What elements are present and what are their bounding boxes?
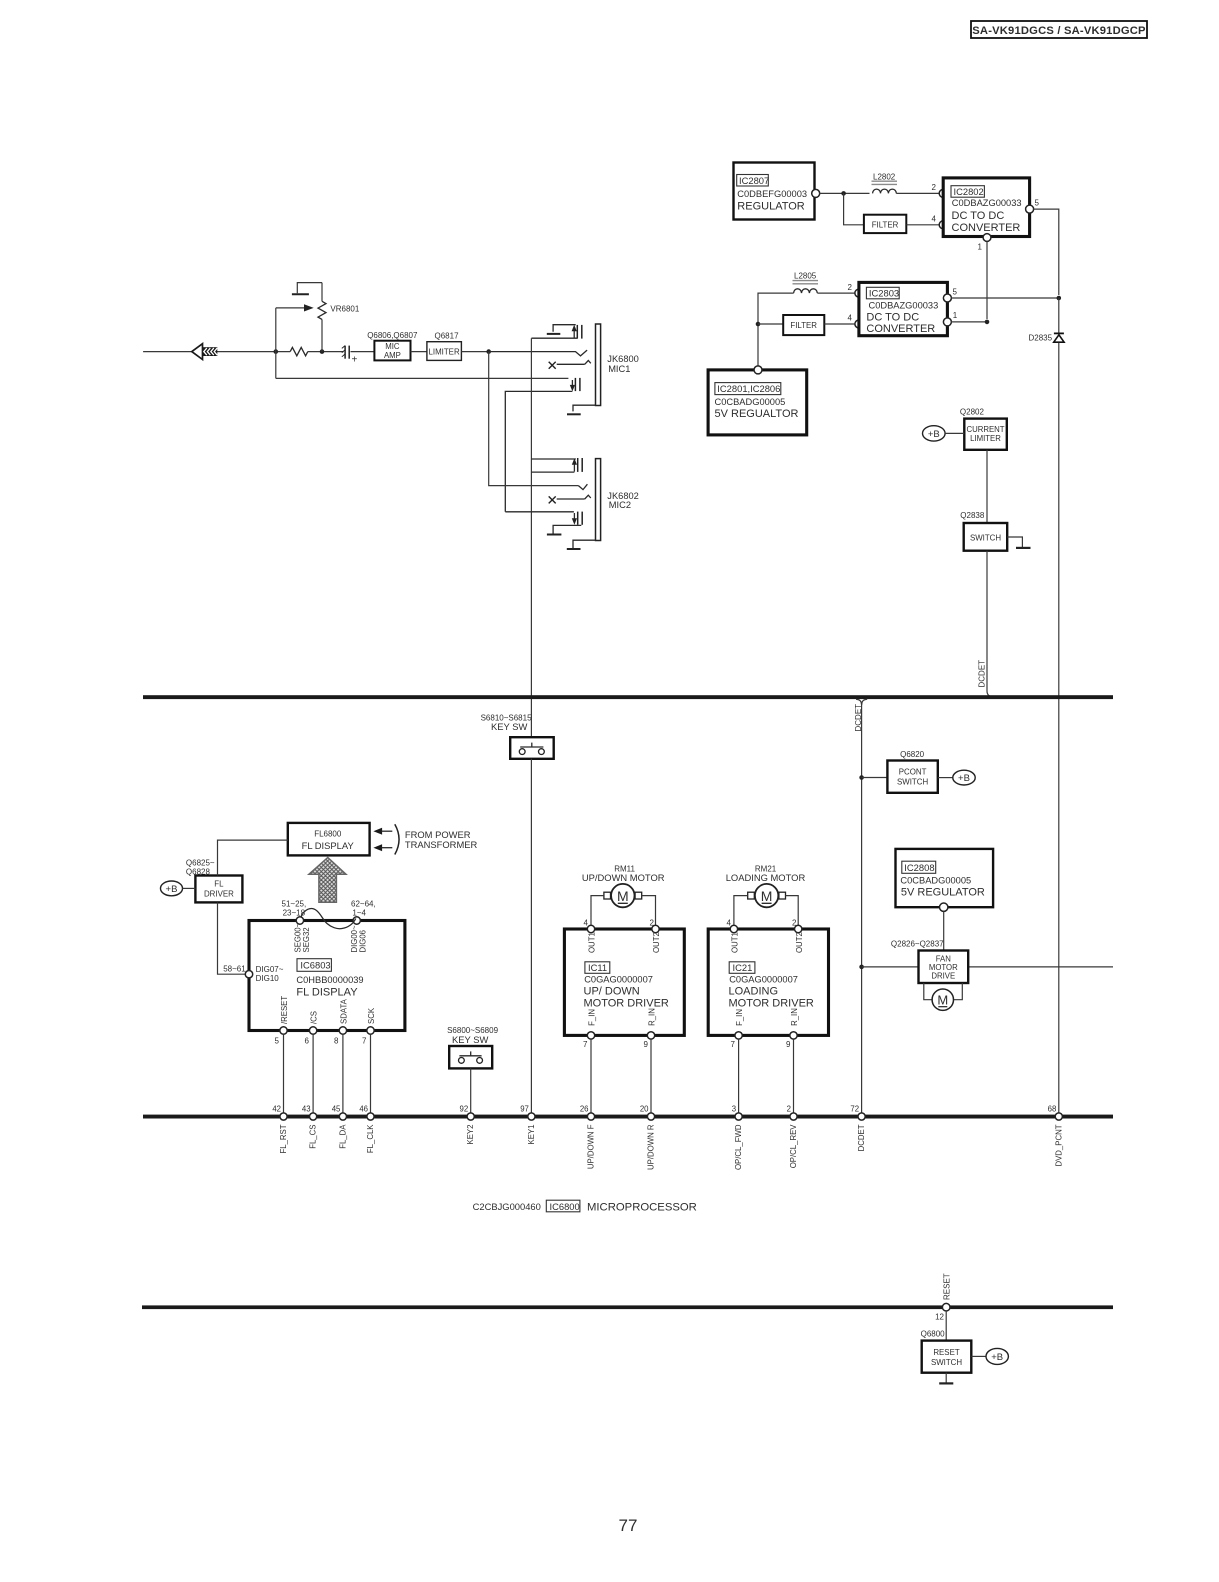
node junction resistor / VR6801 bottom (320, 349, 325, 354)
pin 2 of IC2803 (855, 289, 863, 297)
svg-text:MOTOR DRIVER: MOTOR DRIVER (584, 997, 669, 1009)
wire L2802 to pin2 (896, 192, 939, 194)
pin 92 KEY2 (460, 1105, 476, 1145)
wire pin5 IC2803 to right node (951, 297, 1059, 299)
net DCDET branch below bus (854, 699, 867, 1113)
pin 2 of IC2802 (939, 189, 947, 197)
inductor L2805 (793, 272, 819, 294)
key switches S6800~S6809 (447, 1026, 498, 1068)
wire node 1058.8 down to diode (1058, 298, 1060, 333)
mic jack JK6800 (505, 324, 639, 512)
wire fl driver to IC6803 DIG pins (218, 902, 247, 974)
svg-text:DIG06: DIG06 (359, 930, 368, 953)
svg-text:TRANSFORMER: TRANSFORMER (405, 839, 478, 850)
pin 2 OP/CL_REV (787, 1105, 798, 1169)
wire tip line down to JK6802 (489, 352, 579, 486)
wire resistor to capacitor (308, 351, 344, 353)
node junction at 987,321.9 (985, 320, 990, 325)
svg-text:1: 1 (953, 311, 958, 320)
svg-text:IC2801,IC2806: IC2801,IC2806 (717, 383, 780, 394)
pcont switch Q6820 (887, 750, 937, 793)
svg-text:SDATA: SDATA (340, 998, 349, 1024)
svg-text:MIC2: MIC2 (609, 500, 631, 510)
svg-text:FL6800: FL6800 (314, 829, 342, 838)
svg-text:26: 26 (580, 1105, 589, 1114)
wire pin5 right then down to node (1033, 209, 1059, 295)
svg-text:D2835: D2835 (1029, 334, 1053, 343)
svg-text:68: 68 (1048, 1105, 1057, 1114)
svg-text:Q2826~Q2837: Q2826~Q2837 (891, 940, 944, 949)
wire mic amp to limiter (411, 351, 427, 353)
wire junction down to filter (844, 193, 864, 224)
svg-text:Q6806,Q6807: Q6806,Q6807 (367, 331, 418, 340)
svg-text:C0CBADG00005: C0CBADG00005 (715, 397, 786, 407)
svg-text:51~25,: 51~25, (282, 900, 307, 909)
node junction DCDET / fan line (859, 965, 864, 970)
svg-text:CONVERTER: CONVERTER (866, 323, 935, 335)
svg-text:2: 2 (792, 919, 797, 928)
svg-text:PCONT: PCONT (899, 768, 927, 777)
svg-text:7: 7 (731, 1040, 736, 1049)
wire DCDET to fan motor drive (862, 966, 919, 968)
limiter Q6817 (427, 331, 462, 360)
svg-text:Q6825~: Q6825~ (186, 859, 215, 868)
svg-text:/RESET: /RESET (280, 996, 289, 1024)
svg-text:C0GAG0000007: C0GAG0000007 (584, 974, 653, 984)
arrows from power transformer (373, 824, 477, 854)
svg-text:OP/CL_FWD: OP/CL_FWD (734, 1124, 743, 1170)
microprocessor IC6800 caption (473, 1200, 697, 1213)
svg-text:FL DISPLAY: FL DISPLAY (296, 987, 358, 999)
svg-text:DC TO DC: DC TO DC (866, 311, 919, 323)
svg-text:M: M (937, 993, 948, 1008)
svg-text:KEY SW: KEY SW (452, 1034, 488, 1045)
wire mic ring line (VR wiper to jack1) (276, 377, 569, 379)
svg-text:8: 8 (334, 1037, 339, 1046)
wire IC11 R_IN to microprocessor pin 20 (650, 1039, 652, 1113)
svg-text:92: 92 (460, 1105, 469, 1114)
hatched arrow to FL display (309, 858, 346, 903)
wire IC21 F_IN to microprocessor pin 3 (738, 1039, 740, 1113)
svg-text:DCDET: DCDET (978, 660, 987, 688)
svg-text:FL_CLK: FL_CLK (366, 1124, 375, 1153)
mic amp Q6806,Q6807 (367, 331, 418, 361)
svg-text:97: 97 (520, 1105, 529, 1114)
svg-text:Q6800: Q6800 (921, 1330, 946, 1339)
pin 1 of IC2803 (943, 318, 951, 326)
key switches S6810~S6815 (481, 714, 554, 759)
svg-text:+B: +B (928, 429, 940, 440)
svg-text:+B: +B (958, 773, 970, 784)
svg-text:UP/ DOWN: UP/ DOWN (584, 985, 640, 997)
svg-text:9: 9 (786, 1040, 791, 1049)
svg-text:1: 1 (978, 243, 983, 252)
svg-text:5V REGULATOR: 5V REGULATOR (901, 887, 985, 899)
svg-text:DCDET: DCDET (857, 1124, 866, 1151)
regulator IC2807 (734, 163, 815, 220)
svg-text:DVD_PCNT: DVD_PCNT (1054, 1124, 1063, 1166)
svg-text:23~18: 23~18 (283, 909, 306, 918)
node junction mic1/mic2 tip (486, 349, 491, 354)
svg-text:RESET: RESET (933, 1348, 959, 1357)
node junction at 843.6,193.4 (841, 191, 846, 196)
svg-text:C0HBB0000039: C0HBB0000039 (296, 975, 363, 985)
wire tip contact JK6800 (489, 350, 587, 356)
+B supply for reset switch (971, 1348, 1008, 1364)
svg-text:FILTER: FILTER (872, 221, 899, 230)
microprocessor bottom bus (142, 1305, 1113, 1309)
svg-text:62~64,: 62~64, (351, 900, 376, 909)
svg-text:FL: FL (214, 879, 224, 888)
filter block (lower) (783, 315, 824, 335)
svg-text:4: 4 (584, 919, 589, 928)
wire to PCONT switch (862, 777, 888, 779)
svg-text:DIG10: DIG10 (256, 974, 280, 983)
svg-text:C0DBEFG00003: C0DBEFG00003 (737, 189, 807, 199)
wire filter2 to pin4 (824, 323, 855, 325)
svg-text:OP/CL_REV: OP/CL_REV (789, 1124, 798, 1169)
svg-text:7: 7 (362, 1037, 367, 1046)
svg-text:SWITCH: SWITCH (970, 533, 1001, 542)
svg-text:LOADING MOTOR: LOADING MOTOR (726, 872, 806, 883)
svg-text:SA-VK91DGCS / SA-VK91DGCP: SA-VK91DGCS / SA-VK91DGCP (972, 25, 1146, 37)
wire L2805 to pin2 IC2803 (817, 292, 855, 294)
svg-text:1~4: 1~4 (352, 909, 366, 918)
svg-text:M: M (761, 888, 773, 904)
wire capacitor to mic amp (351, 351, 375, 353)
pin 5 of IC2802 (1026, 205, 1034, 213)
wire IC11 F_IN to microprocessor pin 26 (590, 1039, 592, 1113)
svg-text:DRIVER: DRIVER (204, 889, 234, 898)
svg-text:4: 4 (727, 919, 732, 928)
capacitor (coupling, polarized) (342, 346, 358, 366)
pin 97 KEY1 (520, 1105, 536, 1145)
svg-text:OUT1: OUT1 (731, 932, 740, 953)
svg-text:2: 2 (650, 919, 655, 928)
switch Q2838 (960, 511, 1007, 551)
svg-text:72: 72 (850, 1105, 859, 1114)
svg-text:AMP: AMP (384, 351, 401, 360)
svg-text:5: 5 (953, 288, 958, 297)
wire FL_CLK to microprocessor pin 46 (370, 1034, 372, 1113)
svg-text:DRIVE: DRIVE (931, 971, 955, 980)
wire IC2808 to fan drive (943, 911, 945, 950)
svg-text:C0DBAZG00033: C0DBAZG00033 (952, 198, 1022, 208)
svg-text:FILTER: FILTER (790, 321, 817, 330)
svg-text:7: 7 (583, 1040, 588, 1049)
node junction mic line / VR wiper (274, 349, 279, 354)
svg-text:5: 5 (275, 1037, 280, 1046)
potentiometer VR6801 (318, 283, 360, 352)
svg-text:46: 46 (359, 1105, 368, 1114)
wire FL_CS to microprocessor pin 43 (312, 1034, 314, 1113)
pin 1 of IC2802 (bottom) (983, 234, 991, 242)
svg-text:OUT2: OUT2 (795, 932, 804, 953)
reset switch Q6800 (921, 1330, 972, 1373)
svg-text:C2CBJG000460: C2CBJG000460 (473, 1201, 541, 1212)
svg-text:Q6817: Q6817 (435, 331, 460, 340)
svg-text:M: M (617, 888, 629, 904)
svg-text:CURRENT: CURRENT (966, 425, 1004, 434)
svg-text:VR6801: VR6801 (330, 305, 359, 314)
svg-text:F_IN: F_IN (588, 1009, 597, 1026)
current limiter Q2802 (960, 408, 1007, 450)
svg-text:IC2807: IC2807 (739, 175, 769, 186)
header model box (971, 21, 1147, 38)
loading motor RM21 (726, 865, 806, 927)
svg-text:SEG32: SEG32 (302, 927, 311, 952)
wire key line from jacks down (530, 338, 532, 737)
wire limiter to jacks (461, 351, 488, 353)
5V regulator IC2801,IC2806 (708, 366, 807, 435)
svg-text:IC2802: IC2802 (954, 186, 984, 197)
node junction at 1058.8,298 (1057, 296, 1062, 301)
svg-text:4: 4 (932, 215, 937, 224)
svg-text:+: + (352, 355, 358, 366)
diode D2835 (1029, 333, 1065, 342)
svg-text:MIC1: MIC1 (608, 364, 630, 374)
wire mic input line to resistor (217, 351, 290, 353)
svg-text:2: 2 (848, 283, 853, 292)
+B supply for current limiter (923, 426, 965, 441)
svg-text:IC2808: IC2808 (904, 862, 934, 873)
fl display unit FL6800 (288, 823, 370, 856)
up/down motor driver IC11 (564, 919, 684, 1050)
svg-text:20: 20 (640, 1105, 649, 1114)
svg-text:SWITCH: SWITCH (931, 1358, 962, 1367)
wire fan motor drive to right edge (968, 966, 1113, 968)
svg-text:+B: +B (166, 884, 178, 895)
loading motor driver IC21 (708, 919, 828, 1050)
svg-text:5V REGUALTOR: 5V REGUALTOR (715, 408, 799, 420)
dc-dc converter IC2803 (859, 282, 948, 335)
svg-text:R_IN: R_IN (790, 1008, 799, 1026)
svg-text:LIMITER: LIMITER (970, 434, 1001, 443)
svg-text:MIC: MIC (385, 342, 400, 351)
svg-text:UP/DOWN R: UP/DOWN R (647, 1124, 656, 1170)
pin 26 UP/DOWN F (580, 1105, 596, 1170)
pin IC2807 out (812, 189, 820, 197)
ground for reset switch (939, 1373, 953, 1384)
VR6801 wiper arrow (276, 304, 314, 378)
resistor (series, mic line) (290, 347, 308, 355)
svg-text:4: 4 (848, 314, 853, 323)
svg-text:DCDET: DCDET (854, 704, 863, 732)
filter block (upper) (864, 215, 906, 233)
svg-text:12: 12 (935, 1313, 944, 1322)
svg-text:FL_CS: FL_CS (309, 1125, 318, 1149)
svg-text:LIMITER: LIMITER (429, 347, 460, 356)
svg-text:IC21: IC21 (733, 962, 753, 973)
wire pin1 down (986, 241, 988, 319)
ground for Q2838 (1007, 537, 1030, 548)
wire pin1 IC2803 to node 987 (951, 321, 987, 323)
pin 3 OP/CL_FWD (732, 1105, 743, 1171)
inductor L2802 (872, 173, 898, 194)
svg-text:45: 45 (332, 1105, 341, 1114)
svg-text:Q2802: Q2802 (960, 408, 985, 417)
wire switch down to section bus (DCDET) (987, 551, 994, 697)
node junction DCDET / PCONT (859, 775, 864, 780)
svg-text:KEY SW: KEY SW (491, 721, 527, 732)
svg-text:OUT2: OUT2 (652, 932, 661, 953)
pin 4 of IC2802 (939, 221, 947, 229)
dc-dc converter IC2802 (943, 178, 1029, 237)
microprocessor top bus (143, 1115, 1113, 1119)
pin 42 FL_RST (272, 1105, 288, 1154)
fan motor M (924, 983, 963, 1010)
svg-text:R_IN: R_IN (647, 1008, 656, 1026)
pin 5 of IC2803 (943, 294, 951, 302)
svg-text:43: 43 (302, 1105, 311, 1114)
svg-text:MICROPROCESSOR: MICROPROCESSOR (587, 1202, 697, 1214)
svg-text:IC2803: IC2803 (869, 288, 899, 299)
wire filter to pin4 (906, 224, 939, 226)
svg-text:DIG07~: DIG07~ (256, 965, 284, 974)
svg-text:C0DBAZG00033: C0DBAZG00033 (869, 301, 939, 311)
svg-text:KEY1: KEY1 (527, 1125, 536, 1145)
svg-text:F_IN: F_IN (735, 1009, 744, 1026)
svg-text:L2802: L2802 (873, 173, 896, 182)
stub connection above VR6801 (292, 283, 322, 295)
svg-text:UP/DOWN F: UP/DOWN F (587, 1124, 596, 1169)
svg-text:Q2838: Q2838 (960, 511, 985, 520)
fan motor drive Q2826~Q2837 (891, 940, 968, 983)
svg-text:IC6800: IC6800 (550, 1201, 580, 1212)
svg-text:CONVERTER: CONVERTER (952, 222, 1021, 234)
wire pin12 to reset switch (945, 1311, 947, 1341)
svg-text:+B: +B (991, 1352, 1003, 1363)
svg-text:L2805: L2805 (794, 272, 817, 281)
up/down motor RM11 (582, 865, 665, 927)
pin 43 FL_CS (302, 1105, 318, 1149)
wire limiter to switch (986, 450, 988, 523)
wire IC21 R_IN to microprocessor pin 2 (793, 1039, 795, 1113)
signal-flow arrow (to other page) (192, 344, 218, 360)
svg-text:UP/DOWN MOTOR: UP/DOWN MOTOR (582, 872, 665, 883)
wire FL_RST to microprocessor pin 42 (283, 1034, 285, 1113)
fl driver (195, 876, 242, 903)
svg-text:DC TO DC: DC TO DC (952, 210, 1005, 222)
section boundary bus (upper) (143, 695, 1113, 699)
wire key sw to microprocessor pin 92 (470, 1068, 472, 1112)
svg-text:6: 6 (305, 1037, 310, 1046)
svg-text:9: 9 (644, 1040, 649, 1049)
svg-text:58~61: 58~61 (223, 964, 246, 973)
svg-text:42: 42 (272, 1105, 281, 1114)
svg-text:FL DISPLAY: FL DISPLAY (302, 840, 355, 851)
wire left of L2805 down to 5V regulator (758, 293, 794, 366)
wire key sw to microprocessor pin 97 (530, 759, 532, 1113)
node junction at 758,324 (756, 322, 761, 327)
svg-text:2: 2 (787, 1105, 791, 1114)
svg-text:IC11: IC11 (588, 962, 607, 973)
svg-text:JK6800: JK6800 (607, 354, 639, 364)
wire mic input line (left) (143, 351, 192, 353)
wire node to filter2 (758, 323, 783, 325)
pin 4 of IC2803 (855, 320, 863, 328)
svg-text:OUT1: OUT1 (588, 932, 597, 953)
svg-text:5: 5 (1035, 199, 1040, 208)
svg-text:FL_DA: FL_DA (338, 1124, 347, 1149)
svg-text:2: 2 (932, 183, 937, 192)
+B supply for PCONT (938, 770, 975, 785)
svg-text:Q6820: Q6820 (900, 750, 925, 759)
svg-text:SWITCH: SWITCH (897, 778, 928, 787)
pin 20 UP/DOWN R (640, 1105, 656, 1170)
wire FL_DA to microprocessor pin 45 (342, 1034, 344, 1113)
svg-text:LOADING: LOADING (729, 985, 779, 997)
svg-text:RESET: RESET (942, 1273, 951, 1300)
mic jack JK6802 (505, 458, 639, 549)
svg-text:SCK: SCK (367, 1007, 376, 1024)
svg-text:3: 3 (732, 1105, 736, 1114)
svg-text:REGULATOR: REGULATOR (737, 201, 804, 213)
svg-text:77: 77 (619, 1516, 638, 1535)
fl display controller IC6803 (223, 900, 405, 1046)
svg-text:C0GAG0000007: C0GAG0000007 (729, 974, 798, 984)
pin 72 DCDET (850, 1105, 866, 1152)
svg-text:MOTOR DRIVER: MOTOR DRIVER (729, 997, 814, 1009)
pin 46 FL_CLK (359, 1105, 375, 1154)
wire IC2807 to L2802 (819, 192, 869, 194)
wire diode down through section line to microprocessor pin 68 (1058, 343, 1060, 1113)
+B supply for fl driver (161, 881, 196, 896)
svg-text:/CS: /CS (310, 1011, 319, 1024)
pin 45 FL_DA (332, 1105, 348, 1149)
svg-text:IC6803: IC6803 (300, 960, 330, 971)
svg-text:FL_RST: FL_RST (279, 1124, 288, 1153)
pin 12 RESET (935, 1273, 951, 1321)
svg-text:C0CBADG00005: C0CBADG00005 (900, 875, 971, 885)
5V regulator IC2808 (896, 849, 994, 912)
pin 68 DVD_PCNT (1048, 1105, 1064, 1167)
svg-text:KEY2: KEY2 (466, 1125, 475, 1145)
wire fl driver to FL6800 (218, 840, 288, 875)
